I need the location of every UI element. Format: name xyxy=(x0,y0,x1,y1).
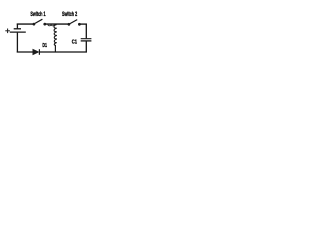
wire capacitor top lead xyxy=(85,24,87,39)
svg-text:D1: D1 xyxy=(42,43,47,49)
battery B1 xyxy=(10,24,26,53)
wire battery top lead xyxy=(16,24,18,29)
wire top rail segment switch 1 to switch 2 xyxy=(46,23,69,25)
battery short plate xyxy=(14,28,21,30)
switch 1 xyxy=(33,19,47,25)
background xyxy=(0,0,120,76)
svg-text:C1: C1 xyxy=(72,39,77,45)
inductor L1 vertical coil xyxy=(54,25,57,46)
capacitor top plate xyxy=(81,38,92,40)
capacitor C1 xyxy=(81,24,92,53)
switch 2 xyxy=(68,20,81,26)
wire battery bottom lead xyxy=(16,33,18,53)
battery long plate xyxy=(10,31,26,33)
diode D1 xyxy=(33,49,40,55)
wire top rail segment switch 2 to top-right corner xyxy=(80,23,87,25)
wire bottom rail battery to diode xyxy=(17,51,33,53)
inductor horizontal loops below top wire xyxy=(48,24,54,25)
svg-text:Switch 1: Switch 1 xyxy=(30,12,46,18)
wire top rail segment battery to switch 1 xyxy=(17,23,33,25)
svg-text:Switch 2: Switch 2 xyxy=(62,12,78,18)
wire bottom rail diode to bottom-right corner xyxy=(40,51,87,53)
capacitor bottom plate xyxy=(81,40,92,42)
wire capacitor bottom lead xyxy=(85,41,87,52)
battery plus sign xyxy=(5,29,10,34)
wire inductor down lead to bottom rail xyxy=(54,45,56,52)
